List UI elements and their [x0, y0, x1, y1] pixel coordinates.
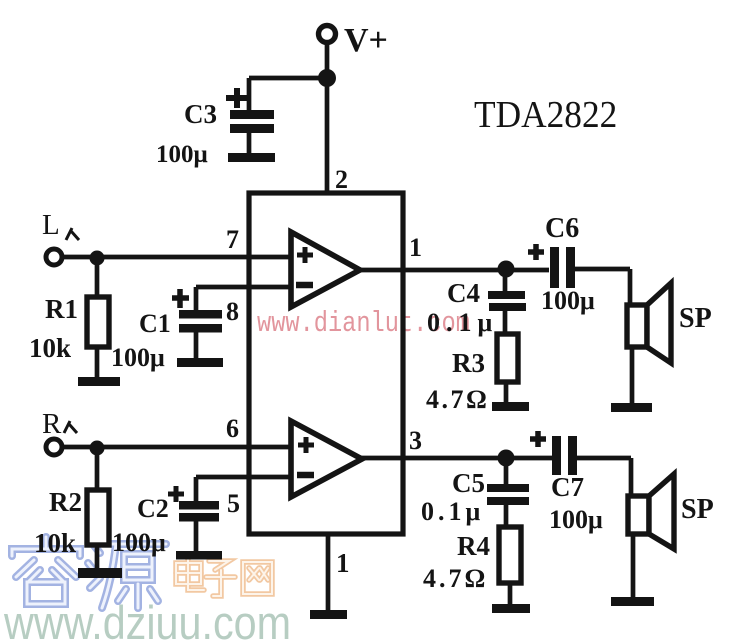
svg-text:0.1μ: 0.1μ [421, 497, 484, 526]
svg-text:3: 3 [409, 426, 422, 455]
svg-text:C7: C7 [551, 472, 584, 502]
svg-text:R3: R3 [452, 348, 485, 378]
svg-text:1: 1 [336, 548, 350, 578]
svg-text:C2: C2 [137, 494, 169, 523]
svg-text:100μ: 100μ [111, 343, 165, 372]
svg-text:4.7Ω: 4.7Ω [423, 564, 488, 593]
svg-text:SP: SP [681, 494, 714, 525]
svg-text:C6: C6 [545, 213, 579, 244]
svg-text:L: L [42, 209, 60, 241]
svg-text:C5: C5 [452, 468, 485, 498]
svg-text:100μ: 100μ [549, 505, 603, 534]
svg-text:2: 2 [335, 165, 348, 194]
svg-text:R1: R1 [45, 294, 78, 324]
svg-text:V+: V+ [344, 22, 388, 59]
svg-text:www.dziuu.com: www.dziuu.com [3, 596, 291, 643]
svg-text:C1: C1 [139, 309, 171, 338]
svg-text:SP: SP [679, 303, 712, 334]
svg-text:100μ: 100μ [112, 528, 166, 557]
svg-text:6: 6 [226, 414, 239, 443]
svg-text:R: R [42, 408, 62, 440]
svg-text:R2: R2 [49, 487, 82, 517]
svg-text:10k: 10k [34, 528, 76, 558]
svg-text:5: 5 [227, 489, 240, 518]
svg-text:R4: R4 [457, 531, 490, 561]
svg-text:7: 7 [226, 225, 239, 254]
svg-text:1: 1 [409, 233, 422, 262]
svg-text:8: 8 [226, 297, 239, 326]
svg-text:10k: 10k [29, 333, 71, 363]
svg-text:4.7Ω: 4.7Ω [426, 385, 489, 414]
svg-text:C4: C4 [447, 278, 480, 308]
svg-text:100μ: 100μ [156, 141, 208, 168]
svg-text:0.1μ: 0.1μ [427, 308, 498, 337]
svg-text:C3: C3 [184, 99, 217, 129]
svg-text:100μ: 100μ [541, 286, 595, 315]
svg-text:TDA2822: TDA2822 [474, 93, 617, 135]
